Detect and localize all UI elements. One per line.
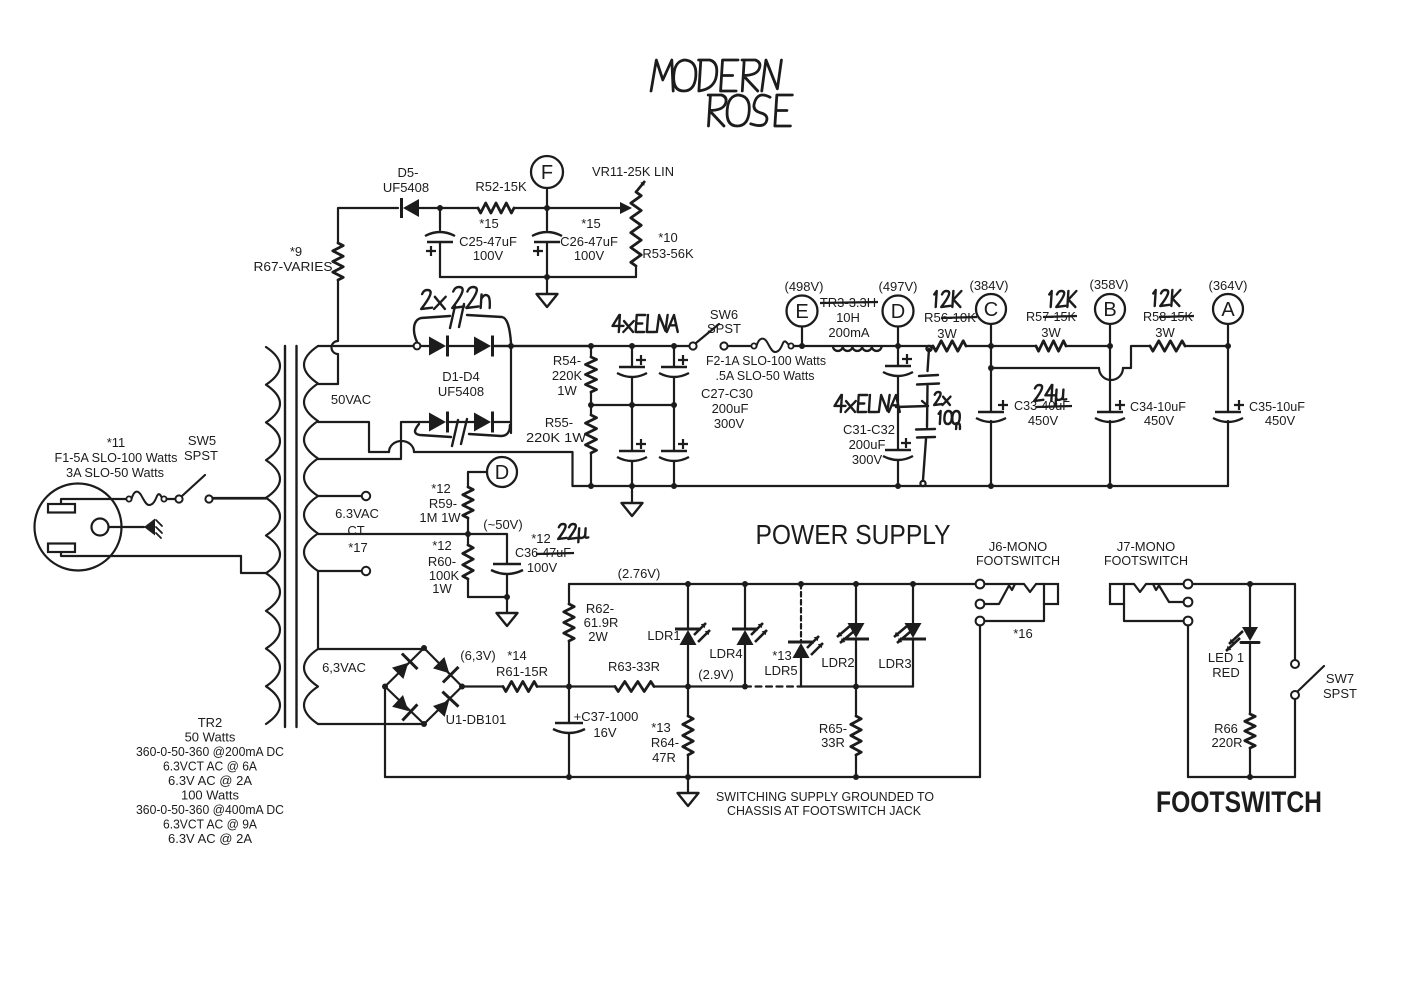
svg-text:U1-DB101: U1-DB101 [446, 712, 507, 727]
svg-text:C35-10uF: C35-10uF [1249, 399, 1305, 414]
wire D1-D2 [449, 345, 474, 347]
label 12K handwritten R57 [1048, 291, 1076, 307]
label *12 R59-1M 1W [419, 481, 461, 525]
svg-text:C26-47uF: C26-47uF [560, 234, 618, 249]
svg-text:D1-D4: D1-D4 [442, 369, 480, 384]
wire footswitch bottom [1188, 774, 1295, 780]
wire CT top tap [318, 492, 370, 500]
label LDR3 [878, 656, 911, 671]
label (2.76V) [618, 566, 661, 581]
svg-text:6.3V AC @ 2A: 6.3V AC @ 2A [168, 831, 252, 846]
diode D3 [429, 412, 448, 433]
svg-text:A: A [1221, 299, 1235, 321]
capacitor C28 column top [659, 346, 689, 405]
bridge diode top-left [392, 654, 418, 680]
svg-text:LDR3: LDR3 [878, 656, 911, 671]
svg-text:33R: 33R [821, 735, 845, 750]
svg-text:LDR5: LDR5 [764, 663, 797, 678]
ground under node F [537, 277, 558, 307]
svg-text:R65-: R65- [819, 721, 847, 736]
svg-text:450V: 450V [1028, 413, 1059, 428]
switch SW5 [175, 475, 266, 503]
resistor R55 [586, 405, 597, 486]
diode D2 [474, 336, 493, 357]
svg-text:*15: *15 [581, 216, 601, 231]
label FOOTSWITCH big [1156, 786, 1322, 819]
ground switching supply [678, 777, 699, 806]
wire E-dot region to R56 [898, 345, 933, 347]
svg-text:6.3VCT AC @ 9A: 6.3VCT AC @ 9A [163, 817, 257, 832]
svg-text:R52-15K: R52-15K [475, 179, 527, 194]
resistor R58 [1150, 341, 1185, 351]
capacitor C27 column top [617, 346, 647, 405]
svg-text:C25-47uF: C25-47uF [459, 234, 517, 249]
svg-text:LDR4: LDR4 [709, 646, 742, 661]
AC plug [35, 484, 122, 571]
wire LV top rail [569, 581, 976, 587]
svg-text:1W: 1W [557, 383, 577, 398]
label R65-33R [819, 721, 847, 750]
diode D5 [402, 198, 438, 218]
svg-text:300V: 300V [852, 452, 883, 467]
svg-text:SPST: SPST [1323, 686, 1357, 701]
svg-text:(6,3V): (6,3V) [460, 648, 495, 663]
wire D5 junction to R52 [440, 207, 478, 209]
wire mid cap bank [588, 402, 677, 408]
handwritten capacitors 2x 100n [916, 346, 939, 486]
svg-text:220K 1W: 220K 1W [526, 430, 587, 445]
label (498V) [784, 279, 823, 294]
label TR2 specifications [136, 715, 284, 846]
svg-text:3A SLO-50 Watts: 3A SLO-50 Watts [66, 465, 164, 480]
label TR3 choke [820, 295, 878, 340]
svg-text:UF5408: UF5408 [383, 180, 429, 195]
LDR LDR1 [675, 584, 710, 687]
svg-text:100V: 100V [574, 248, 605, 263]
wire J6 sleeve to ground rail [979, 625, 981, 777]
label (358V) [1089, 277, 1128, 292]
wire D3 row from transformer [318, 422, 429, 459]
wire R61 to LV rail [537, 684, 615, 690]
handwritten label 2x 22n [421, 287, 490, 309]
svg-text:RED: RED [1212, 665, 1239, 680]
wire HT bus middle [494, 343, 690, 349]
svg-text:F1-5A SLO-100 Watts: F1-5A SLO-100 Watts [55, 450, 178, 465]
wire E to D [802, 345, 898, 347]
label LDR2 [821, 655, 854, 670]
switch SW7 [1291, 584, 1324, 777]
label U1-DB101 [446, 712, 507, 727]
label C33 24u 450V [1014, 385, 1072, 428]
label *13 R64-47R [651, 720, 679, 765]
junction CT divider [465, 531, 471, 537]
svg-text:6,3VAC: 6,3VAC [322, 660, 366, 675]
svg-text:+C37-1000: +C37-1000 [574, 709, 639, 724]
svg-text:6.3V AC @ 2A: 6.3V AC @ 2A [168, 773, 252, 788]
svg-text:R59-: R59- [429, 496, 457, 511]
wire R60/C36 bottom [468, 594, 510, 600]
svg-text:*13: *13 [772, 648, 792, 663]
wire bias rail from R67 corner to D5 [338, 208, 398, 243]
svg-text:R67-VARIES: R67-VARIES [254, 259, 333, 274]
wire B column [1107, 346, 1113, 489]
svg-text:R53-56K: R53-56K [642, 246, 694, 261]
svg-text:FOOTSWITCH: FOOTSWITCH [1104, 553, 1188, 568]
wire 6.3VAC top to bridge [318, 648, 424, 650]
label switching supply note [716, 789, 934, 818]
wire 6.3VAC bottom to bridge [318, 723, 424, 725]
resistor R56 [933, 341, 991, 351]
node C [976, 294, 1006, 349]
label LED 1 RED [1208, 650, 1244, 680]
wire LV mid rail a [654, 684, 748, 690]
label SW6 SPST [707, 307, 741, 336]
resistor R62 [564, 584, 574, 687]
svg-text:3W: 3W [937, 326, 957, 341]
label R54-220K 1W [552, 353, 583, 398]
svg-text:*16: *16 [1013, 626, 1033, 641]
svg-text:R54-: R54- [553, 353, 581, 368]
svg-text:*11: *11 [107, 435, 126, 450]
svg-text:R55-: R55- [545, 415, 573, 430]
svg-text:*17: *17 [348, 540, 368, 555]
svg-text:3W: 3W [1041, 325, 1061, 340]
svg-text:CT: CT [347, 523, 364, 538]
label 6.3VAC CT *17 [335, 506, 379, 555]
label R57-15K 3W [1026, 309, 1077, 340]
label 12K handwritten R58 [1152, 290, 1180, 306]
svg-text:200mA: 200mA [828, 325, 870, 340]
svg-text:1W: 1W [432, 581, 452, 596]
node F [531, 156, 563, 211]
svg-text:220K: 220K [552, 368, 583, 383]
svg-text:POWER SUPPLY: POWER SUPPLY [756, 519, 951, 550]
capacitor C35 [1213, 400, 1244, 422]
label J7-MONO FOOTSWITCH [1104, 539, 1188, 568]
capacitor C33 [976, 400, 1008, 422]
terminal diode row left [414, 343, 421, 350]
svg-text:B: B [1103, 299, 1116, 321]
svg-text:10H: 10H [836, 310, 860, 325]
svg-text:R62-: R62- [586, 601, 614, 616]
svg-text:R63-33R: R63-33R [608, 659, 660, 674]
svg-text:E: E [795, 301, 808, 323]
svg-text:FOOTSWITCH: FOOTSWITCH [1156, 786, 1322, 819]
wire C to R58 hop under B [991, 346, 1150, 380]
svg-text:(~50V): (~50V) [483, 517, 522, 532]
svg-text:300V: 300V [714, 416, 745, 431]
wire bridge negative [384, 687, 386, 778]
svg-text:SW7: SW7 [1326, 671, 1354, 686]
label (2.9V) [698, 667, 733, 682]
fuse F1 [126, 492, 175, 505]
svg-text:*14: *14 [507, 648, 527, 663]
wire D4 to join vertical [494, 346, 511, 433]
label (6,3V) *14 [460, 648, 526, 663]
label (497V) [878, 279, 917, 294]
bridge diode bottom-left [392, 695, 417, 721]
capacitor C26 [532, 208, 562, 277]
svg-text:UF5408: UF5408 [438, 384, 484, 399]
label 50VAC [331, 392, 371, 407]
svg-text:(498V): (498V) [784, 279, 823, 294]
label (364V) [1208, 278, 1247, 293]
resistor R52 [478, 203, 514, 213]
svg-text:16V: 16V [593, 725, 616, 740]
wire J7 top to SW7 [1192, 581, 1295, 587]
label *10 R53-56K [642, 230, 694, 261]
label R56-10K 3W [924, 310, 977, 341]
label (384V) [969, 278, 1008, 293]
svg-text:F: F [541, 162, 553, 184]
label D5-UF5408 [383, 165, 429, 195]
svg-text:C31-C32: C31-C32 [843, 422, 895, 437]
label SW5 SPST [184, 433, 218, 463]
node A [1213, 294, 1243, 349]
wire primary tap bottom [241, 556, 266, 573]
resistor R63 [615, 682, 654, 692]
svg-text:SW5: SW5 [188, 433, 216, 448]
wire C to R57 [991, 345, 1036, 347]
svg-text:50 Watts: 50 Watts [185, 730, 236, 745]
wire CT center tap [318, 533, 468, 535]
svg-text:CHASSIS AT FOOTSWITCH JACK: CHASSIS AT FOOTSWITCH JACK [727, 803, 921, 818]
resistor R61 [503, 682, 537, 692]
label R66 220R [1211, 721, 1242, 750]
label *16 [1013, 626, 1033, 641]
svg-text:61.9R: 61.9R [584, 615, 619, 630]
label C31-C32 200uF 300V [843, 422, 895, 467]
ground under cap bank [622, 486, 643, 516]
capacitor C30 column bottom [659, 405, 689, 486]
svg-text:*9: *9 [290, 244, 302, 259]
resistor R66 [1245, 714, 1255, 777]
svg-text:R61-15R: R61-15R [496, 664, 548, 679]
wire R52 to F node [514, 207, 620, 209]
wire primary tap to SW5 [213, 497, 266, 499]
handwritten title ROSE [706, 95, 792, 126]
svg-text:50VAC: 50VAC [331, 392, 371, 407]
capacitor C31 [883, 346, 913, 449]
svg-text:220R: 220R [1211, 735, 1242, 750]
svg-text:J7-MONO: J7-MONO [1117, 539, 1176, 554]
svg-text:3W: 3W [1155, 325, 1175, 340]
svg-text:(358V): (358V) [1089, 277, 1128, 292]
wire HT ground bus [573, 483, 1229, 489]
resistor R64 [683, 687, 693, 778]
svg-text:FOOTSWITCH: FOOTSWITCH [976, 553, 1060, 568]
label *15 C26 [560, 216, 618, 263]
svg-text:LDR2: LDR2 [821, 655, 854, 670]
svg-text:450V: 450V [1265, 413, 1296, 428]
LDR LDR5 [788, 584, 823, 687]
LDR LDR3 [894, 584, 926, 687]
wire D2 to R54 [494, 343, 591, 349]
label R61-15R [496, 664, 548, 679]
diode D1 [429, 336, 448, 357]
resistor R60 [463, 534, 473, 597]
svg-text:*15: *15 [479, 216, 499, 231]
resistor R57 [1036, 341, 1066, 351]
bridge rectifier U1-DB101 frame [382, 645, 465, 727]
svg-text:R64-: R64- [651, 735, 679, 750]
jack J7 terminals [1184, 580, 1193, 626]
svg-text:C27-C30: C27-C30 [701, 386, 753, 401]
svg-text:J6-MONO: J6-MONO [989, 539, 1048, 554]
bridge diode top-right [433, 657, 459, 683]
svg-text:450V: 450V [1144, 413, 1175, 428]
LDR LDR4 [732, 584, 767, 687]
svg-text:(2.76V): (2.76V) [618, 566, 661, 581]
svg-text:SPST: SPST [707, 321, 741, 336]
wire plug neutral pin [61, 552, 241, 556]
svg-text:2W: 2W [588, 629, 608, 644]
svg-text:LDR1: LDR1 [647, 628, 680, 643]
label C35-10uF 450V [1249, 399, 1305, 428]
wire R57 to B [1066, 345, 1110, 347]
svg-text:47R: 47R [652, 750, 676, 765]
LDR LDR2 [837, 584, 869, 687]
label *15 C25 [459, 216, 517, 263]
resistor R54 [586, 346, 597, 405]
label J6-MONO FOOTSWITCH [976, 539, 1060, 568]
wire A column [1227, 346, 1229, 486]
potentiometer VR11 wiper arrow [620, 202, 632, 214]
wire R58 to A [1185, 345, 1228, 347]
svg-text:360-0-50-360 @400mA DC: 360-0-50-360 @400mA DC [136, 802, 284, 817]
transformer TR2 primary winding [266, 347, 280, 724]
transformer TR2 secondary HT winding [304, 346, 318, 571]
svg-text:R66: R66 [1214, 721, 1238, 736]
jack J7 contacts [1110, 584, 1184, 621]
wire plug hot pin [61, 499, 127, 504]
resistor R59 [463, 472, 473, 534]
node B [1095, 294, 1125, 349]
svg-text:(384V): (384V) [969, 278, 1008, 293]
label 12K handwritten R56 [933, 291, 961, 307]
handwritten label 2x 100n [934, 392, 960, 429]
label *13 LDR5 [764, 648, 797, 678]
wire J7 sleeve down [1187, 625, 1189, 777]
label *12 22u C36 [515, 524, 589, 575]
label R55-220K 1W [526, 415, 587, 445]
capacitor C37 [553, 687, 585, 778]
svg-text:6.3VAC: 6.3VAC [335, 506, 379, 521]
svg-text:.5A SLO-50 Watts: .5A SLO-50 Watts [716, 368, 815, 383]
wire bridge positive to R61 [462, 685, 503, 687]
wire to D1 [421, 345, 430, 347]
node junction D5/C25/R52 [437, 205, 443, 211]
svg-text:200uF: 200uF [712, 401, 749, 416]
wire 50VAC return [318, 422, 573, 486]
svg-text:C: C [984, 299, 998, 321]
label *9 R67-VARIES [254, 244, 333, 274]
label POWER SUPPLY [756, 519, 951, 550]
svg-text:F2-1A SLO-100 Watts: F2-1A SLO-100 Watts [706, 353, 826, 368]
label C27-C30 200uF 300V [701, 386, 753, 431]
svg-text:D5-: D5- [398, 165, 419, 180]
jack J6 contacts [984, 584, 1058, 621]
label *12 R60-100K 1W [428, 538, 460, 596]
label LDR1 [647, 628, 680, 643]
label SW7 SPST [1323, 671, 1357, 701]
inductor TR3 choke [833, 347, 882, 351]
node D bias [468, 457, 517, 487]
ground under C36 [497, 597, 518, 626]
fuse F2 [751, 339, 802, 352]
svg-text:(2.9V): (2.9V) [698, 667, 733, 682]
jack J6 terminals [976, 580, 985, 626]
wire LV mid rail b [801, 684, 913, 690]
transformer TR2 6.3VAC winding [304, 649, 318, 724]
svg-text:*12: *12 [431, 481, 451, 496]
label 6,3VAC [322, 660, 366, 675]
plug ground pin [92, 519, 145, 536]
label VR11-25K LIN [592, 164, 674, 179]
svg-text:*12: *12 [432, 538, 452, 553]
svg-text:1M 1W: 1M 1W [419, 510, 461, 525]
wire CT bottom tap [318, 567, 370, 575]
svg-text:VR11-25K LIN: VR11-25K LIN [592, 164, 674, 179]
label +C37-1000 16V [574, 709, 639, 740]
diode D4 [474, 412, 493, 433]
handwritten title MODERN [651, 60, 781, 91]
node E [787, 296, 818, 350]
capacitor C32 [883, 438, 913, 486]
svg-text:*12: *12 [531, 531, 551, 546]
svg-text:C34-10uF: C34-10uF [1130, 399, 1186, 414]
wire bias bottom rail [440, 274, 636, 280]
switch SW6 [689, 324, 751, 350]
handwritten bypass cap top loop [414, 304, 511, 343]
capacitor C29 column bottom [617, 405, 647, 486]
capacitor C25 [425, 208, 455, 277]
svg-text:360-0-50-360 @200mA DC: 360-0-50-360 @200mA DC [136, 744, 284, 759]
svg-text:200uF: 200uF [849, 437, 886, 452]
svg-text:(497V): (497V) [878, 279, 917, 294]
capacitor C34 [1095, 400, 1125, 422]
svg-text:*13: *13 [651, 720, 671, 735]
svg-text:LED 1: LED 1 [1208, 650, 1244, 665]
potentiometer VR11 / resistor R53 [631, 181, 645, 277]
svg-text:SPST: SPST [184, 448, 218, 463]
label F2 fuse rating [706, 353, 826, 383]
wire R67 to 50VAC tap with hop [318, 280, 338, 384]
label C34-10uF 450V [1130, 399, 1186, 428]
label R52-15K [475, 179, 527, 194]
svg-text:SW6: SW6 [710, 307, 738, 322]
label LDR4 [709, 646, 742, 661]
wire D3-D4 [449, 421, 474, 423]
handwritten 4xELNA first [612, 315, 679, 332]
handwritten 4xELNA second [834, 395, 928, 412]
svg-text:SWITCHING SUPPLY GROUNDED TO: SWITCHING SUPPLY GROUNDED TO [716, 789, 934, 804]
resistor R67 [333, 243, 343, 280]
wire LV mid rail dashed [745, 685, 801, 687]
svg-text:D: D [891, 301, 905, 323]
wire 50VAC top tap [318, 345, 414, 347]
svg-text:100 Watts: 100 Watts [181, 788, 240, 803]
wire secondary gap link [317, 571, 319, 649]
bridge diode bottom-right [433, 692, 459, 717]
capacitor C36 [491, 564, 523, 597]
resistor R65 [851, 687, 861, 778]
handwritten bypass cap bottom loop [415, 419, 510, 446]
label R58-15K 3W [1143, 309, 1194, 340]
svg-text:6.3VCT AC @ 6A: 6.3VCT AC @ 6A [163, 759, 257, 774]
node D [883, 296, 914, 350]
label D1-D4 UF5408 [438, 369, 484, 399]
